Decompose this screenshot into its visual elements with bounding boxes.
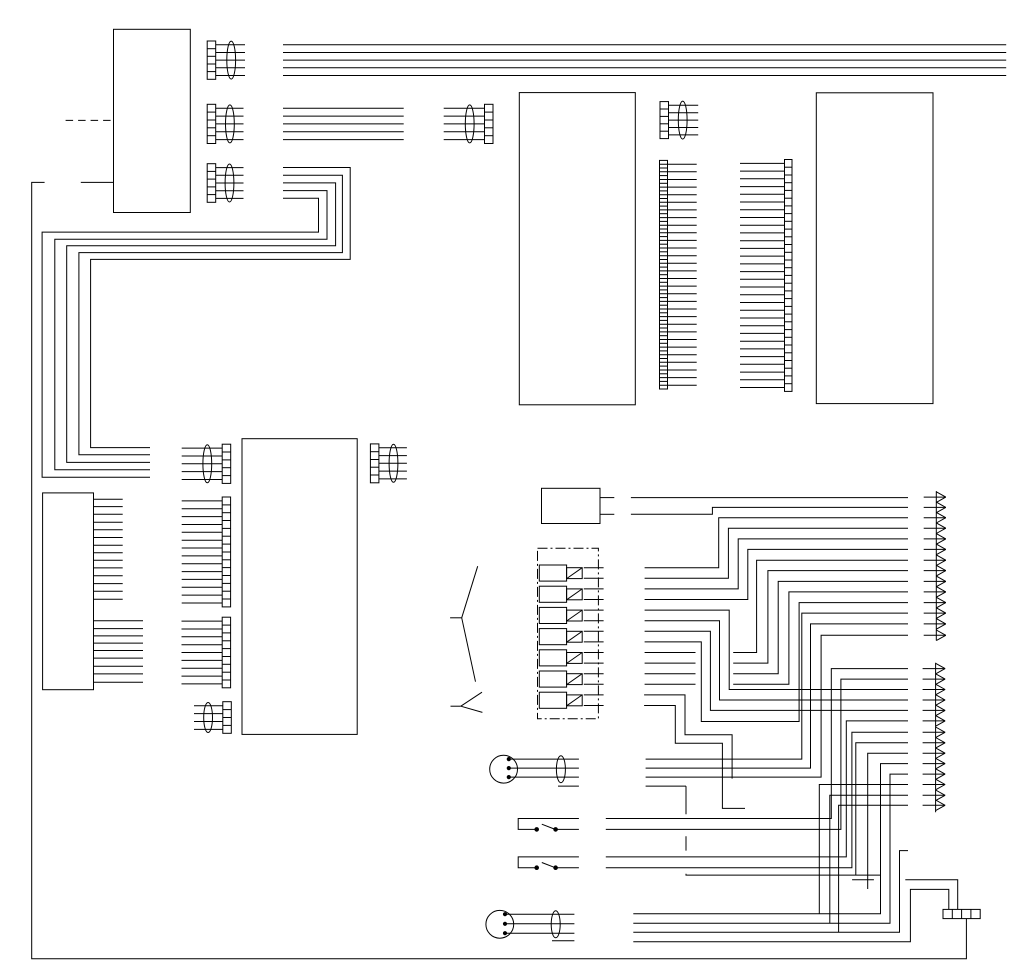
connector J6 [182, 497, 231, 607]
connector J1 [207, 41, 245, 79]
connector J4 [444, 104, 493, 143]
wire P1 pin2 to TB1 [646, 624, 908, 768]
wire P2 shield bus [633, 889, 949, 941]
connector J7 [182, 617, 231, 688]
fuse F4 [539, 629, 603, 645]
fuse F7 [539, 692, 603, 708]
block U4 [519, 93, 635, 405]
wire harness run 2 [79, 175, 343, 455]
fuse F3 [539, 607, 603, 623]
wire P1 pin3 to TB1 [646, 635, 908, 777]
wire harness run 5 [42, 198, 318, 477]
wire fuse F6 to TB1 [645, 592, 908, 684]
wire P2 pin1 bus [633, 764, 908, 914]
connector J12 [740, 160, 792, 392]
connector J11 [660, 160, 697, 389]
connector J10 [660, 101, 698, 139]
wire fuse F1 to TB1 [645, 528, 908, 578]
antenna Y2 [451, 692, 483, 712]
wire dashed stub [66, 119, 114, 121]
wire harness run 1 [91, 168, 351, 448]
wire fuse F1 to TB1 [645, 518, 908, 568]
wire U2 pin group 1 [94, 499, 123, 599]
connector TB1 [924, 491, 946, 640]
connector J3 [207, 164, 243, 203]
wire riser TB2 pin13 [830, 795, 908, 923]
wire fuse F7b run [644, 706, 745, 809]
fuse F1 [539, 565, 603, 581]
antenna Y1 [450, 566, 478, 682]
wire fuse F5 to TB1 [645, 571, 908, 664]
connector J2 [207, 104, 243, 143]
terminal strip X1 [943, 909, 980, 918]
block U2 [43, 493, 94, 690]
wire P1 pin1 to TB1 [646, 613, 908, 759]
wire fuse F7a run [644, 695, 732, 779]
block K1 [542, 488, 601, 523]
wire fuse F4b to TB1 [645, 603, 908, 722]
switch S2 [518, 857, 579, 870]
wire U2 pin group 2 [94, 621, 144, 682]
fuse F2 [539, 586, 603, 602]
wire bus harness top [283, 45, 1006, 76]
wire TB2 pin9 drop [868, 753, 908, 889]
block U5 [816, 93, 933, 404]
wire border frame [32, 182, 967, 958]
wire harness run 4 [55, 191, 327, 470]
wire P2 pin2 bus [633, 774, 908, 923]
connector P2 [486, 910, 575, 940]
wire riser TB2 pin14 [839, 805, 908, 932]
wire TB2 pin8 drop [856, 743, 908, 875]
wire fuse F2 to TB1 [645, 549, 908, 599]
wire strip feed [905, 880, 957, 910]
wire bus harness 2 [283, 108, 404, 139]
wire S2 to TB2 b [606, 732, 908, 867]
connector P1 [490, 755, 579, 786]
wire fuse F2 to TB1 [645, 539, 908, 589]
connector TB2 [923, 663, 946, 813]
block U3 [242, 439, 357, 735]
wire harness run 3 [67, 183, 336, 463]
wire fuse F5 to TB1 [645, 560, 908, 652]
fuse box FB1 outline [538, 548, 599, 718]
fuse F6 [539, 671, 603, 687]
wire fuse F3a to TB2 [645, 610, 908, 689]
wire stub near strip [852, 879, 874, 881]
wire S2 to TB2 a [606, 721, 908, 857]
wire fuse F4a to TB2 [645, 631, 908, 710]
wire S1 to TB2 a [606, 669, 908, 819]
wire shield link [646, 786, 881, 875]
connector J9 [370, 444, 407, 483]
wire S1 to TB2 b [606, 679, 908, 829]
switch S1 [518, 819, 579, 832]
wire K1 to TB1 pin2 [631, 507, 908, 514]
wire fuse F6 to TB1 [645, 581, 908, 673]
fuse F5 [539, 650, 603, 666]
wire K1 to TB1 pin1 [631, 497, 908, 499]
wire fuse F3b to TB2 [645, 621, 908, 700]
wire P2 pin3 bus [633, 851, 908, 933]
block U1 [114, 29, 191, 212]
wire stub to box U1 [81, 181, 114, 183]
wire riser TB2 pin12 [819, 785, 908, 914]
connector J8 [194, 702, 231, 734]
connector J5 [182, 444, 231, 483]
wire K1 stubs [600, 498, 614, 515]
